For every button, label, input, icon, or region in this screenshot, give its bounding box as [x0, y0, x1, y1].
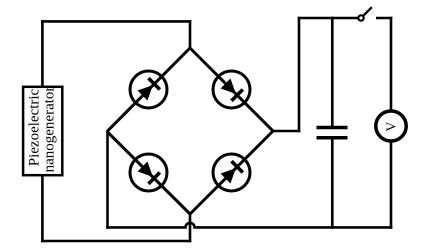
wire: right riser — [298, 17, 301, 133]
switch S1 (open) — [358, 7, 372, 21]
wire: bridge edge top-right — [190, 48, 273, 131]
wire: voltmeter top lead — [390, 17, 393, 110]
diode D3 (bottom-left, pointing to bottom node) — [122, 146, 174, 198]
wire: capacitor bottom lead — [331, 139, 334, 229]
wire: generator top lead — [41, 20, 44, 86]
wire: bottom rail — [41, 240, 191, 243]
diode D4 (bottom-right, pointing to right node) — [205, 146, 257, 198]
wire: bridge bottom riser — [189, 213, 192, 242]
svg-text:nanogenerator: nanogenerator — [41, 87, 57, 173]
piezoelectric nanogenerator source box — [23, 87, 62, 175]
wire: top-left rail — [41, 20, 191, 23]
wire: DC negative rail with hop over bottom riser — [106, 223, 392, 228]
wire: bridge right vertex to riser — [272, 130, 300, 133]
svg-text:V: V — [383, 121, 398, 131]
wire: capacitor top lead — [331, 17, 334, 126]
wire: voltmeter bottom lead — [390, 143, 393, 229]
wire: switch to corner — [376, 17, 392, 20]
diode D1 (top-left, pointing to top node) — [122, 63, 174, 115]
wire: bridge left vertex drop — [106, 131, 109, 229]
diode D2 (top-right, pointing to right node) — [205, 63, 257, 115]
svg-text:Piezoelectric: Piezoelectric — [27, 88, 43, 166]
voltmeter V1 — [376, 111, 406, 141]
wire: bridge top riser — [189, 20, 192, 49]
wire: bridge edge left-top — [107, 48, 190, 132]
wire: bridge edge left-bottom — [107, 132, 190, 215]
capacitor C1 — [317, 128, 348, 138]
wire: top-right rail to switch — [298, 17, 359, 20]
wire: generator bottom lead — [41, 175, 44, 242]
wire: bridge edge right-bottom — [190, 131, 273, 214]
